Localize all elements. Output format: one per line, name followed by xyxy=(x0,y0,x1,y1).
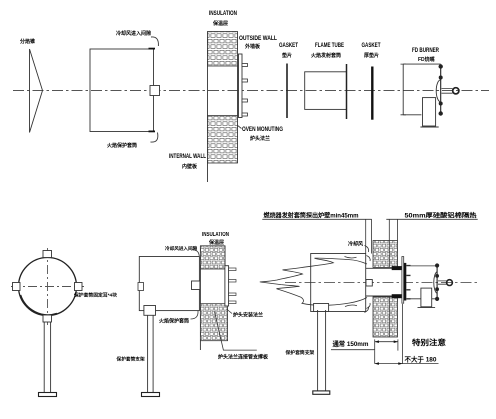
splitter cone xyxy=(30,49,43,133)
svg-text:外墙板: 外墙板 xyxy=(245,43,261,50)
svg-text:INTERNAL WALL: INTERNAL WALL xyxy=(169,153,206,160)
svg-text:火焰保护套筒: 火焰保护套筒 xyxy=(159,318,189,325)
svg-text:保护套筒支架: 保护套筒支架 xyxy=(285,349,315,356)
FD burner outline xyxy=(401,64,441,115)
svg-text:保护套筒支架: 保护套筒支架 xyxy=(116,356,145,363)
gasket 2 (thick) xyxy=(371,67,373,120)
svg-text:垫片: 垫片 xyxy=(282,52,292,59)
svg-text:厚垫片: 厚垫片 xyxy=(364,52,379,59)
support bracket detail xyxy=(314,304,329,312)
svg-text:特别注意: 特别注意 xyxy=(412,337,447,347)
centerline bottom right xyxy=(285,282,478,284)
flange bolts xyxy=(229,268,236,304)
support bracket xyxy=(144,306,156,316)
flame tube through wall xyxy=(366,268,402,296)
crosshair centerlines xyxy=(11,248,84,325)
fixing ear top xyxy=(43,251,52,258)
bolts detail xyxy=(406,266,410,299)
svg-text:FLAME TUBE: FLAME TUBE xyxy=(315,42,345,49)
svg-text:保温层: 保温层 xyxy=(208,239,224,246)
50mm extension lines xyxy=(389,219,397,240)
svg-text:OUTSIDE WALL: OUTSIDE WALL xyxy=(239,35,277,42)
support base detail xyxy=(313,391,330,394)
sleeve circle xyxy=(19,258,77,316)
nozzle ring detail xyxy=(447,280,453,286)
svg-text:火焰发射套筒: 火焰发射套筒 xyxy=(311,52,341,59)
sleeve rectangle detail xyxy=(311,254,366,312)
svg-text:保温层: 保温层 xyxy=(212,20,228,27)
burner front arc xyxy=(436,80,441,102)
svg-text:冷却风进入间隙: 冷却风进入间隙 xyxy=(165,245,198,252)
fixing ear left xyxy=(13,283,21,291)
small square on sleeve right edge xyxy=(150,86,160,96)
black flange mark bottom xyxy=(392,294,402,298)
svg-text:内壁板: 内壁板 xyxy=(182,163,198,170)
nozzle pipe detail xyxy=(438,281,447,284)
burner plate with bolts detail xyxy=(436,264,439,301)
svg-text:分焰锥: 分焰锥 xyxy=(20,38,35,45)
svg-text:OVEN MONUTING: OVEN MONUTING xyxy=(242,126,283,133)
svg-text:50mm厚硅酸铝棉隔热: 50mm厚硅酸铝棉隔热 xyxy=(405,212,478,220)
svg-text:不大于 180: 不大于 180 xyxy=(405,355,437,364)
svg-text:通常 150mm: 通常 150mm xyxy=(333,339,369,348)
thicker lower-left arc xyxy=(21,295,58,315)
svg-text:FD BURNER: FD BURNER xyxy=(412,47,439,54)
svg-text:冷却风进入间隙: 冷却风进入间隙 xyxy=(116,30,151,37)
wall layer split line xyxy=(388,241,390,338)
leader arrow to flange xyxy=(227,309,233,314)
burner arc detail xyxy=(434,272,437,294)
furnace wall right line xyxy=(237,32,239,164)
leader hook xyxy=(191,311,199,319)
burner body detail xyxy=(421,288,432,307)
support base left view xyxy=(39,393,57,397)
flame tube flange xyxy=(346,64,348,119)
leader hook bottom xyxy=(151,133,158,143)
burner base line xyxy=(420,126,438,128)
burner nozzle pipe xyxy=(442,88,453,93)
fixing ear bottom xyxy=(43,315,52,322)
svg-text:炉头安装法兰: 炉头安装法兰 xyxy=(232,312,263,319)
svg-text:保护套筒固定耳*4块: 保护套筒固定耳*4块 xyxy=(73,292,117,299)
svg-text:炉头法兰连接管支撑板: 炉头法兰连接管支撑板 xyxy=(217,354,269,361)
fixing ear right xyxy=(75,283,83,291)
burner nozzle ring xyxy=(453,88,459,94)
wall top hatch xyxy=(200,246,225,269)
svg-text:燃烧器发射套筒探出炉壁min45mm: 燃烧器发射套筒探出炉壁min45mm xyxy=(264,212,359,220)
leader hook top xyxy=(151,37,158,46)
svg-text:GASKET: GASKET xyxy=(362,42,381,49)
leader 炉头法兰连接管支撑板 xyxy=(215,312,257,351)
wall bottom hatch detail xyxy=(373,297,398,337)
support post detail xyxy=(318,310,326,391)
wall right line xyxy=(224,246,226,341)
gasket 1 xyxy=(286,64,288,119)
support base middle view xyxy=(142,393,160,397)
centerline top view xyxy=(13,90,489,92)
oven mounting flange plate xyxy=(239,54,243,118)
black flange mark top xyxy=(392,266,402,270)
flame shape xyxy=(260,258,367,305)
flange plate detail xyxy=(402,257,404,304)
svg-text:INSULATION: INSULATION xyxy=(209,10,237,17)
support post left view xyxy=(44,322,50,393)
flame protection sleeve rectangle xyxy=(90,49,154,132)
svg-text:FD烧嘴: FD烧嘴 xyxy=(418,56,435,63)
min45 extension lines xyxy=(366,219,372,253)
furnace wall left line xyxy=(207,32,209,183)
sleeve rectangle xyxy=(139,257,199,311)
burner body xyxy=(423,98,436,126)
cooling air curved arrows xyxy=(345,246,371,313)
left fixing ear xyxy=(138,283,144,291)
wall bottom insulation hatch xyxy=(208,116,238,164)
wall top hatch detail xyxy=(373,241,398,268)
svg-text:INSULATION: INSULATION xyxy=(202,232,229,238)
svg-text:火焰保护套筒: 火焰保护套筒 xyxy=(107,142,137,149)
leader OVEN MONUTING xyxy=(237,125,242,129)
burner connect lines xyxy=(411,266,437,299)
wall left line xyxy=(199,246,201,350)
support post middle view xyxy=(148,315,154,392)
thick black gasket bar xyxy=(404,263,407,301)
wall top insulation hatch xyxy=(208,32,238,67)
dimension 不大于 180 xyxy=(375,304,439,364)
flange bolts xyxy=(242,64,248,117)
svg-text:GASKET: GASKET xyxy=(279,42,298,49)
wall bottom hatch xyxy=(200,304,227,341)
leader to gap xyxy=(192,250,199,257)
svg-text:冷却风: 冷却风 xyxy=(348,241,363,248)
burner mounting plate with bolts xyxy=(439,65,442,116)
svg-text:炉头法兰: 炉头法兰 xyxy=(249,135,270,142)
flange plate xyxy=(225,266,229,306)
small square on right edge centerline xyxy=(366,280,372,287)
flame tube xyxy=(305,72,347,110)
small square on right edge xyxy=(192,281,200,290)
burner base detail xyxy=(418,307,436,309)
